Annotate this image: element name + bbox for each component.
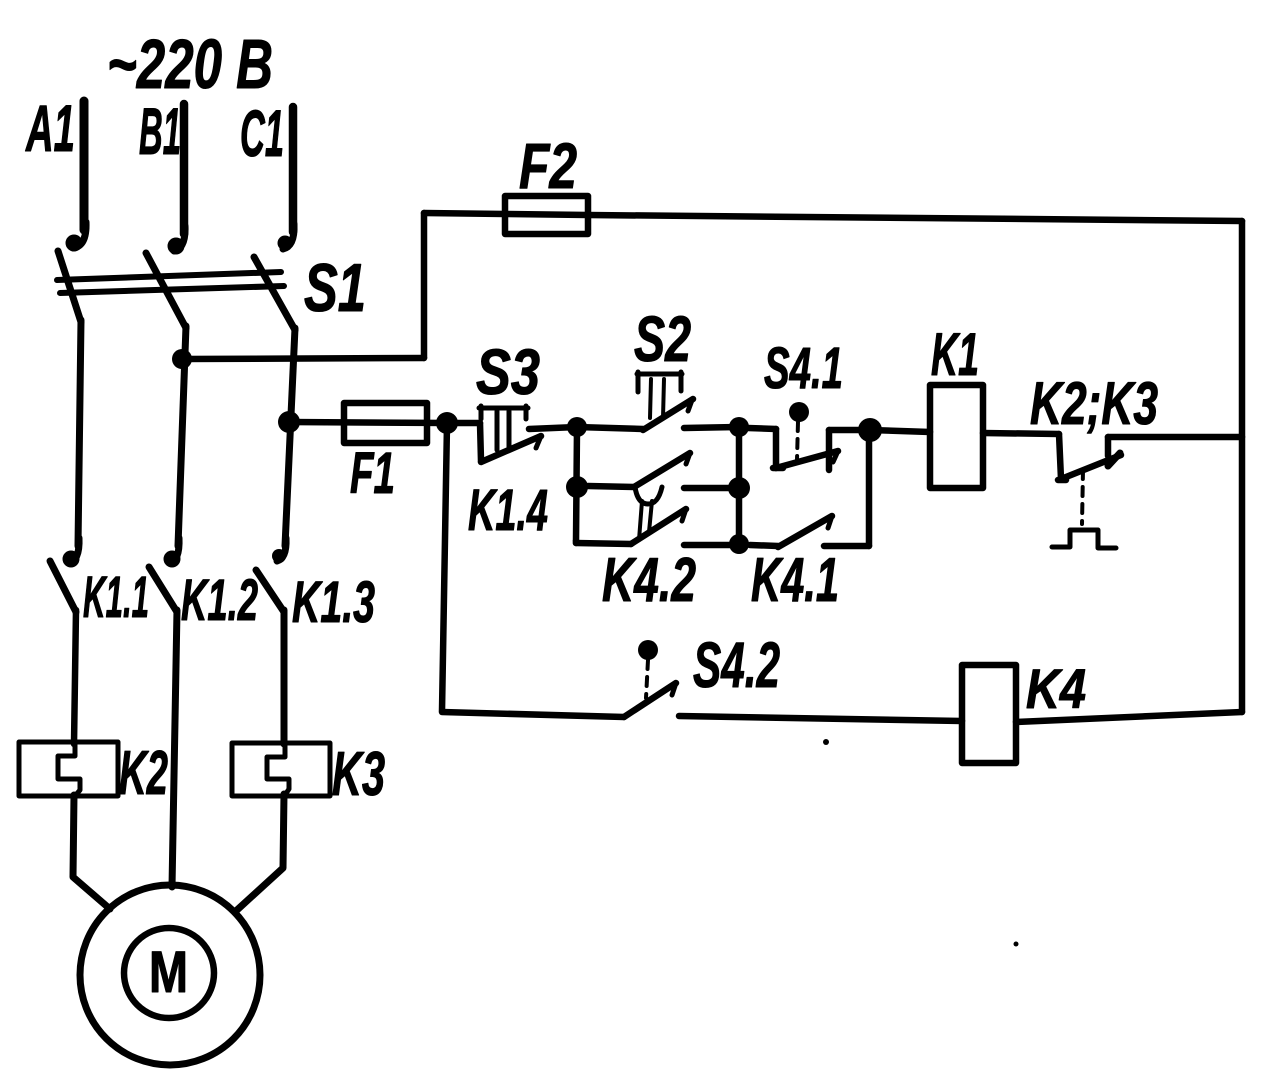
node junction dot K1.4 right bbox=[728, 477, 750, 499]
contact K1.2 blade bbox=[149, 567, 177, 612]
svg-text:S1: S1 bbox=[304, 250, 366, 326]
motor M inner circle bbox=[124, 928, 214, 1018]
contact S3 thermal relay bbox=[447, 420, 480, 427]
wire right vertical rail bbox=[1239, 221, 1246, 712]
wire top rail left of F2 bbox=[424, 213, 505, 214]
wire bottom rail K4 to right corner bbox=[1016, 712, 1242, 722]
wire branch column left (K1.4 / K4.2) bbox=[576, 428, 577, 541]
svg-text:C1: C1 bbox=[240, 96, 284, 170]
relay coil K4 bbox=[962, 665, 1016, 763]
svg-text:F2: F2 bbox=[519, 130, 577, 202]
wire phase B drop to S1 bbox=[180, 104, 189, 234]
svg-text:K4.2: K4.2 bbox=[602, 546, 696, 615]
contact K1.1 fixed hook bbox=[69, 538, 79, 563]
wire bottom rail left of S4.2 bbox=[442, 712, 624, 717]
pushbutton S4.1 stop bbox=[748, 428, 776, 429]
wire phase C drop to S1 bbox=[289, 107, 298, 232]
svg-text:M: M bbox=[149, 940, 188, 1005]
node junction dot K4.2 right bbox=[729, 534, 749, 554]
contact K4.1 bbox=[750, 545, 778, 546]
svg-text:K4: K4 bbox=[1026, 657, 1086, 720]
wire phase B K1.2 to motor bbox=[172, 610, 177, 887]
contact K1.3 fixed hook bbox=[277, 538, 286, 561]
node junction dot K1.4 left bbox=[566, 476, 588, 498]
wire phase B S1 to K1.2 bbox=[178, 326, 186, 546]
S1 fixed contact hook phase B bbox=[174, 226, 185, 251]
svg-text:S2: S2 bbox=[634, 303, 691, 375]
wire branch column right bbox=[736, 427, 743, 545]
node junction dot F1 output bbox=[436, 412, 458, 434]
switch S1 mechanical linkage bar bbox=[57, 272, 281, 280]
svg-text:K3: K3 bbox=[332, 740, 385, 809]
node junction dot phase B control tap bbox=[172, 349, 192, 369]
svg-text:S4.2: S4.2 bbox=[693, 629, 780, 701]
wire phase C K1.3 to K3 coil bbox=[281, 610, 288, 744]
svg-text:F1: F1 bbox=[350, 441, 395, 506]
wire phase C S1 to K1.3 bbox=[285, 328, 295, 546]
svg-text:K1: K1 bbox=[931, 321, 979, 388]
relay coil K1 bbox=[870, 430, 930, 432]
contact K4.2 bbox=[573, 541, 580, 543]
node junction dot rail mid bbox=[729, 417, 749, 437]
svg-text:K1.2: K1.2 bbox=[181, 568, 258, 633]
svg-text:K2;K3: K2;K3 bbox=[1030, 370, 1158, 437]
fuse F2 bbox=[505, 214, 588, 215]
svg-text:A1: A1 bbox=[25, 91, 75, 165]
switch S1 blade phase A bbox=[58, 251, 81, 322]
wire riser to F2 bbox=[421, 213, 428, 358]
svg-text:K1.3: K1.3 bbox=[292, 570, 375, 635]
stray speck 1 bbox=[823, 739, 829, 745]
contact K1.3 blade bbox=[256, 570, 284, 612]
svg-text:S3: S3 bbox=[476, 336, 540, 408]
switch S1 blade phase C bbox=[254, 257, 295, 330]
wire bottom rail S4.2 to K4 bbox=[679, 716, 962, 721]
fuse F1 bbox=[289, 422, 447, 423]
pushbutton S2 start bbox=[577, 427, 643, 429]
wire top rail F2 to right corner bbox=[588, 215, 1242, 221]
wire phase C K3 coil to motor bbox=[237, 794, 284, 910]
wire control tap to F2 riser bbox=[182, 358, 424, 359]
node junction dot S2 left bbox=[567, 417, 587, 437]
contact K2;K3 latch symbol bbox=[1052, 530, 1116, 548]
node junction dot K1 coil left bbox=[858, 418, 882, 442]
svg-text:K4.1: K4.1 bbox=[751, 546, 839, 615]
electromagnet coil K2 bbox=[19, 742, 118, 796]
svg-text:B1: B1 bbox=[139, 94, 181, 168]
contact K1.1 blade bbox=[50, 561, 76, 612]
wire phase A drop to S1 bbox=[80, 101, 89, 230]
switch S1 blade phase B bbox=[146, 253, 186, 328]
electromagnet coil K3 bbox=[232, 743, 330, 796]
stray speck 2 bbox=[1014, 942, 1019, 947]
wire phase A S1 to K1.1 bbox=[78, 320, 81, 546]
svg-text:~220 B: ~220 B bbox=[107, 25, 273, 103]
contact K1.4 bbox=[588, 486, 634, 487]
svg-text:K1.1: K1.1 bbox=[83, 565, 149, 630]
contact K1.2 fixed hook bbox=[170, 538, 179, 563]
pushbutton S4.2 bbox=[624, 683, 676, 717]
wire left vertical of bottom loop bbox=[442, 424, 447, 711]
contact K2;K3 interlock bbox=[1059, 434, 1061, 479]
S1 fixed contact hook phase C bbox=[283, 224, 294, 249]
node junction dot phase C tap to F1 bbox=[278, 411, 300, 433]
wire phase A K2 coil to motor bbox=[73, 795, 110, 909]
S1 fixed contact hook phase A bbox=[73, 222, 86, 248]
motor M outer circle bbox=[80, 885, 260, 1065]
svg-text:S4.1: S4.1 bbox=[764, 336, 843, 401]
wire phase A K1.1 to K2 coil bbox=[74, 610, 76, 744]
svg-text:K2: K2 bbox=[119, 739, 168, 808]
svg-text:K1.4: K1.4 bbox=[468, 478, 548, 543]
